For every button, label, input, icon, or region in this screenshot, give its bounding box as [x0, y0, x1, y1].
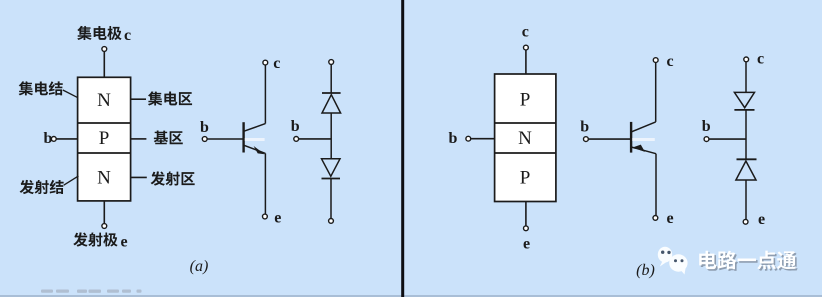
svg-text:c: c: [757, 51, 764, 68]
PNP structure box U2: [495, 74, 556, 202]
svg-text:c: c: [667, 53, 674, 70]
node c of Q2: [653, 58, 658, 63]
svg-text:b: b: [580, 119, 589, 136]
wire top diode chain (b): [745, 62, 747, 93]
node c of diode chain (b): [744, 57, 749, 62]
watermark dashes: [41, 290, 142, 293]
logo icon chat bubbles: [658, 247, 688, 275]
wire top diode chain (a): [330, 65, 332, 94]
wire bottom diode chain (b): [745, 180, 747, 219]
wire emitter of Q2: [655, 154, 657, 216]
label 发射结 emitter junction: [20, 180, 64, 194]
label 集电极 c (collector terminal): [77, 26, 131, 44]
wire base of Q1: [207, 138, 243, 140]
node c terminal: [102, 47, 107, 52]
node e of PNP structure: [524, 226, 529, 231]
diode D2 (b-e): [322, 159, 341, 179]
node b of Q1: [202, 137, 207, 142]
wire base lead PNP: [471, 138, 495, 140]
node c of PNP structure: [524, 45, 529, 50]
NPN structure box U1: [78, 77, 131, 201]
svg-text:b: b: [702, 118, 711, 135]
svg-text:e: e: [121, 234, 128, 251]
svg-text:(b): (b): [636, 262, 655, 279]
wire to 集电区: [131, 98, 146, 100]
node b of diode chain (b): [704, 137, 709, 142]
wire emitter lead PNP: [525, 202, 527, 226]
node top of diode chain (a): [329, 60, 334, 65]
wire collector of Q1: [264, 65, 266, 123]
pointer line emitter junction: [64, 176, 79, 185]
svg-text:N: N: [97, 168, 111, 189]
node e of diode chain (b): [743, 219, 748, 224]
label 发射区 emitter region: [151, 171, 195, 185]
label 集电结 collector junction: [19, 81, 63, 95]
node e of Q1: [263, 214, 268, 219]
wire collector of Q2: [655, 63, 657, 122]
wire middle diode chain (a): [330, 113, 332, 159]
node c of Q1: [263, 60, 268, 65]
svg-text:e: e: [667, 210, 674, 227]
node e of Q2: [653, 216, 658, 221]
svg-text:P: P: [99, 128, 110, 149]
diode D4 (e-b): [736, 159, 757, 180]
node b of Q2: [584, 137, 589, 142]
wire to 发射区: [131, 176, 147, 178]
label 发射极 e (emitter terminal): [73, 232, 127, 250]
svg-text:b: b: [200, 119, 209, 136]
svg-text:c: c: [124, 27, 131, 44]
node b of PNP structure: [466, 136, 471, 141]
pointer line collector junction: [63, 90, 78, 98]
svg-text:e: e: [274, 209, 281, 226]
node bottom of diode chain (a): [329, 219, 334, 224]
wire to 基区: [131, 138, 147, 140]
divider line: [401, 0, 404, 297]
transistor Q1 (NPN): [242, 122, 265, 154]
wire base lead: [56, 138, 77, 140]
label 集电区 collector region: [148, 91, 192, 105]
svg-text:N: N: [518, 128, 532, 149]
diode D1 (b-c): [322, 93, 341, 113]
wire b of diode chain (b): [709, 138, 746, 140]
wire emitter of Q1: [264, 153, 266, 214]
svg-text:e: e: [758, 211, 765, 228]
wire base of Q2: [588, 138, 631, 140]
svg-text:e: e: [523, 236, 530, 253]
logo text 电路一点通 shadow: [701, 252, 798, 271]
svg-text:b: b: [291, 118, 300, 135]
svg-text:(a): (a): [190, 258, 209, 275]
label 基区 base region: [154, 131, 183, 145]
svg-text:N: N: [97, 90, 111, 111]
wire middle diode chain (b): [745, 110, 747, 159]
svg-text:c: c: [273, 55, 280, 72]
wire b of diode chain (a): [299, 138, 331, 140]
svg-text:P: P: [520, 90, 531, 111]
wire bottom diode chain (a): [330, 179, 332, 219]
svg-text:P: P: [520, 168, 531, 189]
transistor Q2 (PNP): [630, 122, 656, 154]
svg-text:c: c: [522, 23, 529, 40]
node b of diode chain (a): [294, 137, 299, 142]
wire collector lead PNP: [525, 50, 527, 74]
bottom edge strip: [0, 295, 822, 297]
wire collector lead: [103, 52, 105, 78]
wire emitter lead: [103, 201, 105, 224]
node b terminal: [51, 137, 56, 142]
logo text 电路一点通: [699, 251, 796, 270]
svg-text:b: b: [449, 130, 458, 147]
node e terminal: [102, 224, 107, 229]
diode D3 (c-b): [734, 92, 754, 110]
